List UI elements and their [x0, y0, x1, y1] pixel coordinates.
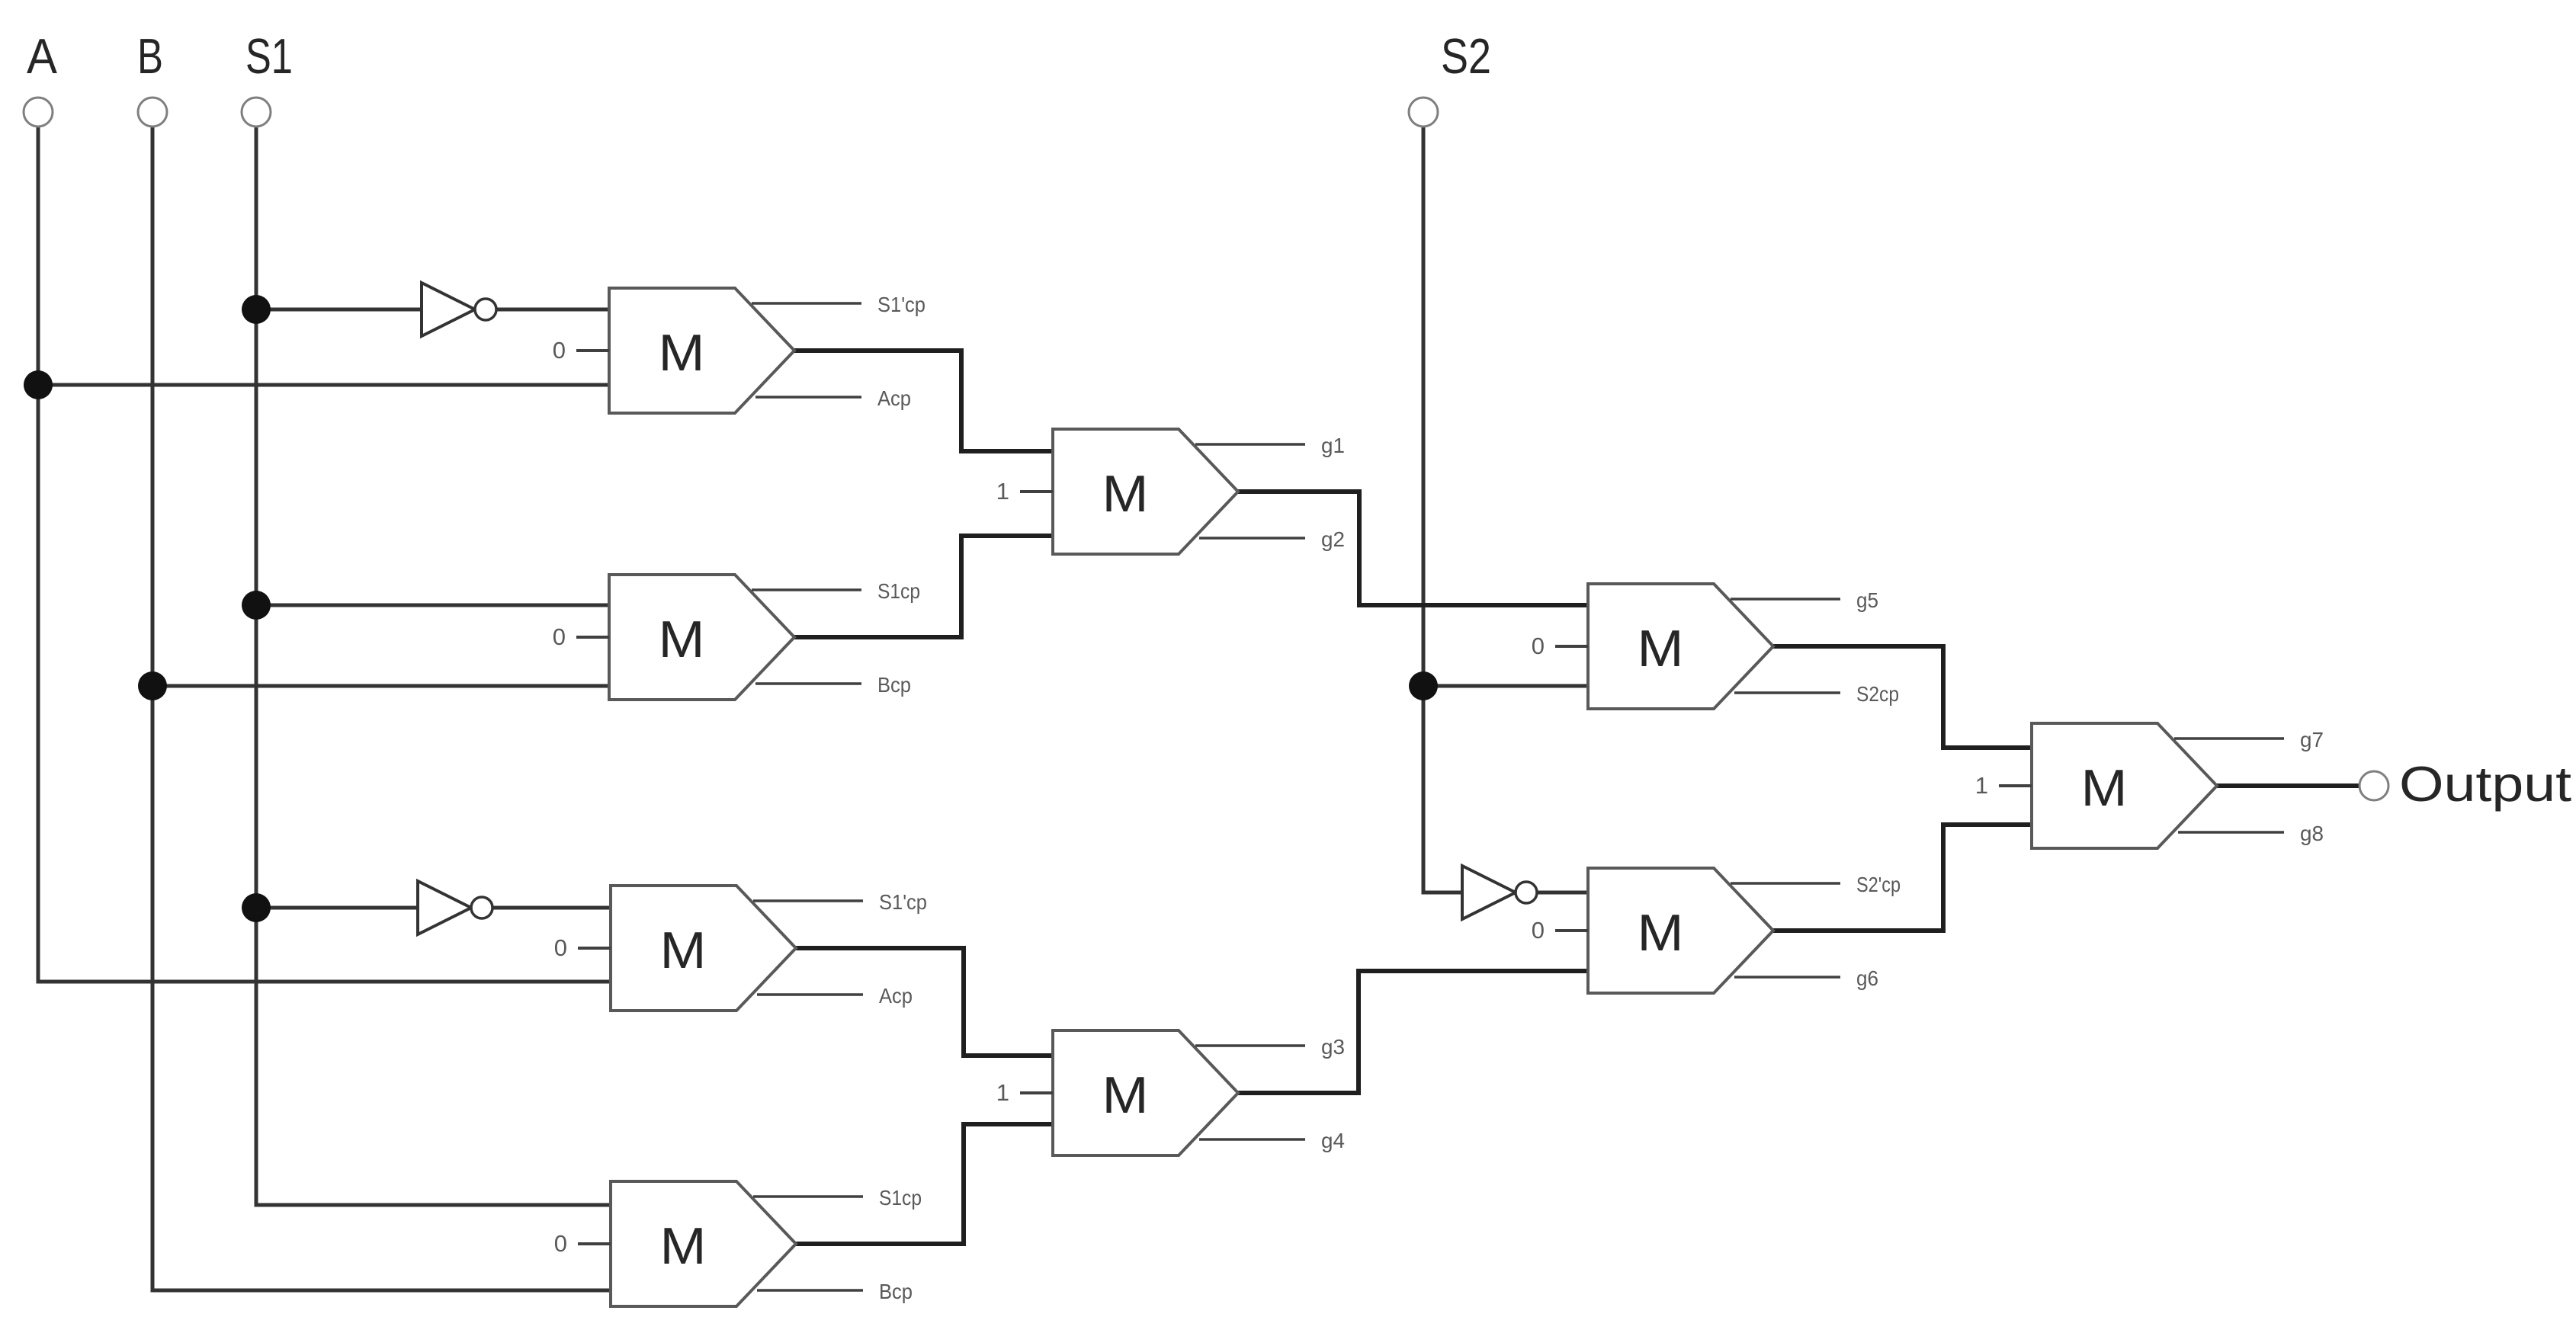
inverter N1 (NOT gate) [422, 283, 496, 336]
wire S1 branch to inverter N1 [256, 308, 422, 312]
mux U2 (M) [609, 575, 794, 700]
terminal node S2 [1409, 98, 1438, 127]
svg-text:S1'cp: S1'cp [879, 890, 927, 914]
U3 output stub g1 [1195, 443, 1305, 446]
svg-text:0: 0 [554, 1230, 567, 1257]
svg-text:Bcp: Bcp [879, 1280, 913, 1303]
svg-text:0: 0 [553, 337, 566, 364]
svg-text:S2cp: S2cp [1856, 682, 1899, 706]
U1 output stub Acp [755, 396, 861, 399]
svg-text:1: 1 [996, 478, 1009, 505]
junction on B at mux U2 lower input branch [138, 671, 167, 700]
svg-text:M: M [659, 324, 705, 382]
U2 output stub Bcp [755, 682, 861, 685]
junction on S1 at inverter N2 branch [242, 893, 271, 922]
U5 select pin 0 [1555, 645, 1588, 648]
U4 output stub Acp [757, 993, 863, 996]
U6 select pin 1 [1020, 1091, 1053, 1094]
U4 output stub S1'cp [753, 899, 863, 902]
svg-text:A: A [27, 28, 58, 84]
svg-text:0: 0 [1532, 633, 1545, 659]
svg-text:g7: g7 [2300, 728, 2324, 751]
terminal node S1 [242, 98, 271, 127]
mux U7 (M) [1588, 868, 1773, 993]
wire mux U3 output to mux U5 upper input [1238, 492, 1590, 605]
terminal node B [138, 98, 167, 127]
U9 select pin 1 [1999, 784, 2032, 787]
U1 output stub S1'cp [752, 302, 861, 305]
U9 output stub g8 [2178, 831, 2284, 834]
U7 select pin 0 [1555, 929, 1588, 932]
svg-text:S2'cp: S2'cp [1856, 873, 1901, 896]
U6 output stub g3 [1195, 1044, 1305, 1047]
U8 select pin 0 [578, 1242, 611, 1245]
wire input S1 rail (down then right to mux U8 upper input) [256, 127, 613, 1205]
svg-text:B: B [137, 28, 163, 84]
U5 output stub g5 [1731, 598, 1840, 601]
U8 output stub Bcp [757, 1289, 863, 1292]
svg-text:S1cp: S1cp [879, 1186, 922, 1210]
svg-text:Acp: Acp [879, 984, 913, 1008]
U5 output stub S2cp [1734, 691, 1840, 694]
wire mux U4 output to mux U6 upper input [796, 948, 1055, 1056]
svg-text:g4: g4 [1321, 1129, 1345, 1152]
svg-text:g5: g5 [1856, 588, 1878, 612]
wire S1 branch to inverter N2 [256, 906, 418, 910]
svg-text:1: 1 [1975, 772, 1988, 799]
junction on S1 at inverter N1 branch [242, 295, 271, 324]
svg-text:g6: g6 [1856, 966, 1878, 990]
wire mux U7 output to mux U9 lower input [1773, 825, 2034, 931]
svg-text:M: M [1102, 1066, 1149, 1124]
svg-text:M: M [660, 1217, 707, 1275]
wire mux U8 output to mux U6 lower input [796, 1124, 1055, 1244]
U7 output stub S2'cp [1731, 882, 1840, 885]
inverter N2 (NOT gate) [418, 881, 492, 934]
svg-text:0: 0 [1532, 917, 1545, 944]
wire mux U2 output to mux U3 lower input [794, 536, 1055, 637]
inverter N3 (NOT gate) [1462, 866, 1537, 919]
svg-text:g1: g1 [1321, 434, 1345, 457]
wire mux U5 output to mux U9 upper input [1773, 646, 2034, 748]
wire S2 branch to mux U5 lower input [1423, 684, 1590, 688]
terminal node Output [2359, 771, 2388, 800]
U1 select pin 0 [576, 349, 609, 352]
svg-text:M: M [1638, 904, 1684, 962]
svg-text:M: M [659, 610, 705, 668]
svg-text:S1cp: S1cp [877, 579, 920, 603]
U3 select pin 1 [1020, 490, 1053, 493]
mux U8 (M) [611, 1181, 796, 1306]
wire inverter N2 output to mux U4 upper input [491, 906, 613, 910]
svg-text:S1'cp: S1'cp [877, 293, 925, 316]
wire mux U6 output to mux U7 lower input [1238, 971, 1590, 1093]
svg-text:0: 0 [554, 934, 567, 961]
mux U4 (M) [611, 886, 796, 1011]
wire input B rail (down then right to mux U8 lower input) [152, 127, 613, 1290]
svg-text:g2: g2 [1321, 527, 1345, 551]
U2 output stub S1cp [752, 588, 861, 591]
svg-text:M: M [1102, 465, 1149, 523]
svg-text:S1: S1 [245, 28, 293, 84]
wire mux U1 output to mux U3 upper input [794, 351, 1055, 451]
mux U9 (M) [2032, 723, 2217, 848]
svg-text:g3: g3 [1321, 1035, 1345, 1059]
junction on S2 at mux U5 lower input branch [1409, 671, 1438, 700]
U3 output stub g2 [1199, 537, 1305, 540]
U9 output stub g7 [2174, 737, 2284, 740]
mux U3 (M) [1053, 429, 1238, 554]
wire S1 branch to mux U2 upper input [256, 604, 611, 607]
wire input S2 rail (down then right to inverter N3) [1423, 127, 1462, 892]
svg-text:M: M [1638, 620, 1684, 678]
svg-text:M: M [2081, 759, 2128, 817]
svg-text:Acp: Acp [877, 386, 911, 410]
svg-text:Output: Output [2399, 756, 2571, 812]
mux U1 (M) [609, 288, 794, 413]
wire B branch to mux U2 lower input [152, 684, 611, 688]
svg-text:0: 0 [553, 623, 566, 650]
mux U6 (M) [1053, 1030, 1238, 1155]
wire input A rail (down then right to mux U4 lower input) [38, 127, 613, 982]
svg-text:S2: S2 [1441, 28, 1491, 84]
svg-text:1: 1 [996, 1079, 1009, 1106]
junction on A at mux U1 lower input branch [24, 370, 53, 399]
U4 select pin 0 [578, 947, 611, 950]
U8 output stub S1cp [753, 1195, 863, 1198]
U7 output stub g6 [1734, 976, 1840, 979]
wire A branch to mux U1 lower input [38, 383, 611, 387]
U2 select pin 0 [576, 636, 609, 639]
mux U5 (M) [1588, 584, 1773, 709]
terminal node A [24, 98, 53, 127]
wire mux U9 output to Output terminal [2217, 783, 2360, 788]
wire inverter N1 output to mux U1 upper input [495, 308, 611, 312]
U6 output stub g4 [1199, 1138, 1305, 1141]
wire inverter N3 output to mux U7 upper input [1535, 891, 1590, 895]
svg-text:g8: g8 [2300, 822, 2324, 845]
svg-text:M: M [660, 921, 707, 979]
svg-text:Bcp: Bcp [877, 673, 911, 697]
junction on S1 at mux U2 upper input branch [242, 591, 271, 620]
